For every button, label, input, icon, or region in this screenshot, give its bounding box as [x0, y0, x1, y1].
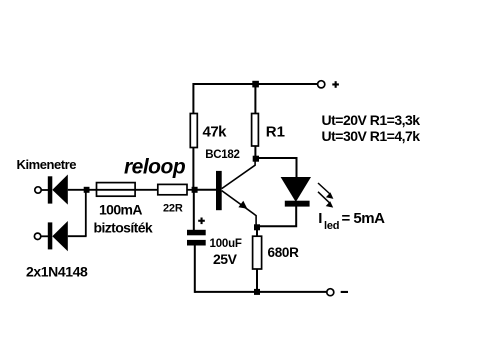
svg-text:100uF: 100uF [210, 238, 242, 250]
LED D3 [281, 177, 311, 202]
svg-text:led: led [324, 220, 339, 232]
resistor 680R [253, 236, 262, 269]
svg-text:22R: 22R [163, 202, 183, 214]
emission arrow 1 [318, 183, 333, 199]
wire D2 up to diode node [85, 190, 87, 236]
wire R1 bottom [254, 146, 256, 160]
plus label top [332, 83, 339, 85]
wire base node down to capacitor [193, 190, 195, 230]
bottom rail wire [195, 291, 327, 293]
svg-text:100mA: 100mA [99, 202, 142, 218]
svg-text:680R: 680R [268, 245, 300, 260]
node diode junction [84, 187, 90, 193]
terminal - (bottom right) [327, 289, 334, 296]
svg-text:R1: R1 [266, 124, 285, 141]
wire 47k to base node [192, 148, 194, 191]
svg-text:BC182: BC182 [205, 149, 239, 161]
wire R1 top [254, 84, 256, 114]
node base junction [192, 187, 198, 193]
capacitor C1 plus sign [198, 220, 205, 222]
node collector junction [253, 156, 259, 162]
wire 680R to bottom rail [256, 269, 258, 292]
capacitor C1 100uF plate 1 [187, 230, 206, 236]
wire LED bottom to emitter node [257, 207, 296, 227]
wire capacitor to bottom rail [194, 246, 196, 293]
node bottom rail junction [254, 289, 260, 295]
minus label bottom [341, 291, 348, 293]
svg-text:47k: 47k [203, 124, 228, 141]
svg-text:reloop: reloop [124, 155, 186, 178]
transistor Q1 BC182 [216, 159, 256, 227]
emission arrow 2 [318, 192, 333, 208]
svg-text:= 5mA: = 5mA [342, 210, 386, 227]
fuse F1 [97, 183, 136, 197]
svg-text:25V: 25V [213, 251, 238, 267]
svg-text:Ut=30V R1=4,7k: Ut=30V R1=4,7k [322, 128, 421, 144]
wire collector node to LED top [256, 158, 297, 178]
svg-text:2x1N4148: 2x1N4148 [26, 264, 88, 280]
top rail wire [193, 83, 318, 85]
wire emitter node to 680R [256, 227, 258, 237]
resistor R1 [252, 114, 259, 147]
diode D2 (bottom) [34, 221, 86, 251]
resistor 22R [158, 184, 187, 194]
node junction top rail / R1 [252, 81, 259, 88]
diode D1 (top) [35, 175, 85, 205]
label I_led = 5mA [318, 210, 385, 232]
wire diode node to fuse [88, 189, 158, 191]
svg-text:I: I [318, 210, 322, 227]
svg-text:Kimenetre: Kimenetre [17, 157, 77, 172]
wire left vertical to 47k [192, 83, 194, 114]
svg-text:Ut=20V R1=3,3k: Ut=20V R1=3,3k [322, 112, 421, 128]
terminal + (top right) [318, 81, 325, 88]
wire base node to transistor [194, 189, 216, 191]
wire 22R to base node [187, 189, 193, 191]
node emitter junction [254, 224, 260, 230]
svg-text:biztosíték: biztosíték [94, 219, 153, 235]
capacitor C1 plate 2 [187, 240, 206, 246]
resistor 47k [190, 114, 197, 148]
